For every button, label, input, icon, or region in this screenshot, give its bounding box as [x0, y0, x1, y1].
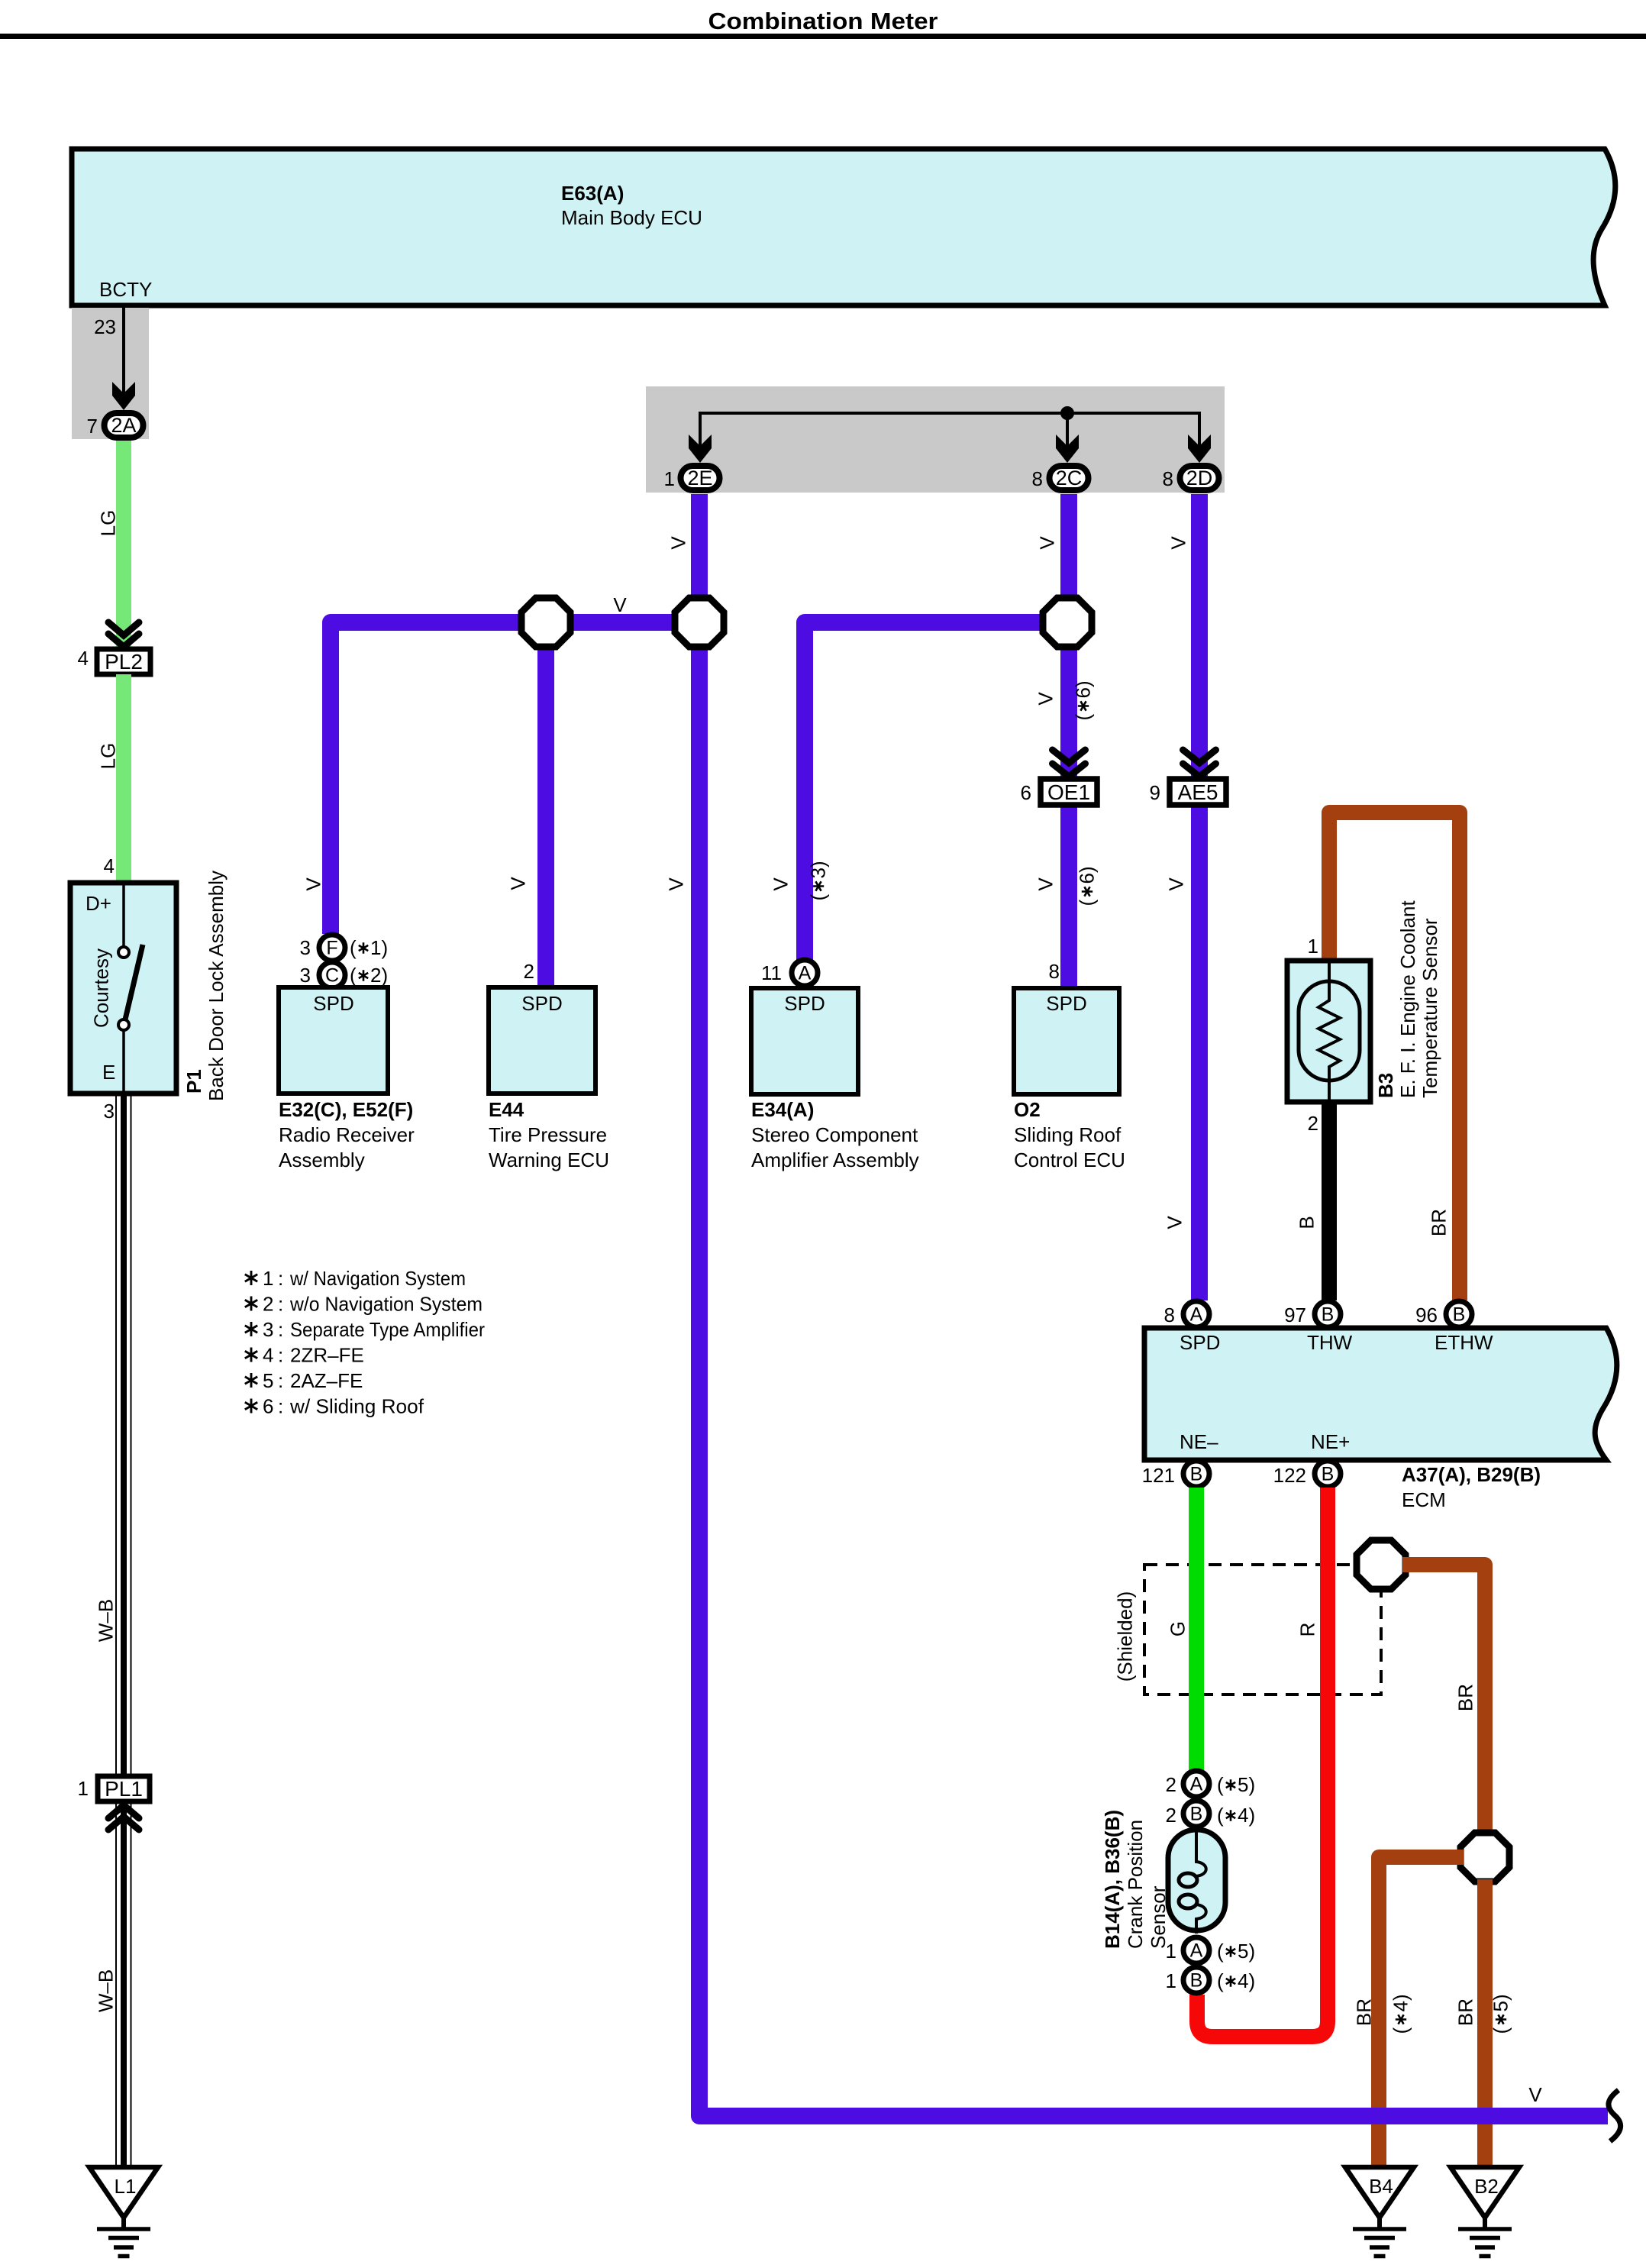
- svg-text:V: V: [507, 877, 530, 890]
- svg-text:PL2: PL2: [105, 650, 143, 674]
- svg-text:96: 96: [1415, 1304, 1438, 1326]
- connector shade 2A: [72, 308, 149, 439]
- svg-text::: :: [278, 1293, 283, 1316]
- ECU E34(A) Stereo Component Amplifier box: [751, 988, 858, 1094]
- connector A of E34: [792, 960, 818, 986]
- svg-text:(: (: [807, 894, 830, 901]
- svg-text:B: B: [1190, 1970, 1203, 1992]
- svg-text:A: A: [1190, 1774, 1203, 1795]
- svg-text:V: V: [1163, 1216, 1186, 1229]
- svg-text:w/ Navigation System: w/ Navigation System: [289, 1267, 466, 1290]
- svg-text:B3: B3: [1374, 1073, 1397, 1098]
- svg-text:BR: BR: [1353, 1998, 1376, 2026]
- label *5: [1489, 1994, 1512, 2034]
- svg-text:V: V: [665, 877, 688, 891]
- ECU E32(C) E52(F) Radio Receiver Assembly box: [279, 987, 388, 1094]
- wire V branch to E34 amplifier: [805, 622, 1067, 960]
- inline connector PL1: [98, 1776, 150, 1801]
- svg-text:(: (: [1389, 2027, 1412, 2034]
- svg-text:6): 6): [1072, 680, 1095, 698]
- inline connector PL2 chevron: [108, 622, 139, 647]
- junction dot: [1060, 406, 1074, 420]
- svg-text:Courtesy: Courtesy: [90, 948, 113, 1028]
- svg-text:AE5: AE5: [1178, 780, 1218, 804]
- svg-text:Radio Receiver: Radio Receiver: [279, 1123, 415, 1146]
- wire bus to 2E 2C 2D: [700, 413, 1199, 458]
- svg-text:6: 6: [1021, 781, 1031, 804]
- svg-text:L1: L1: [115, 2175, 137, 2198]
- wire W-B from P1 to PL1: [115, 1094, 117, 1776]
- svg-text:Amplifier Assembly: Amplifier Assembly: [751, 1149, 919, 1171]
- svg-text:Crank Position: Crank Position: [1124, 1820, 1147, 1949]
- svg-text:B: B: [1190, 1464, 1203, 1485]
- svg-text:2D: 2D: [1186, 467, 1213, 489]
- svg-text:3: 3: [263, 1318, 273, 1341]
- svg-text:w/ Sliding Roof: w/ Sliding Roof: [289, 1395, 424, 1418]
- svg-text:BR: BR: [1454, 1684, 1477, 1711]
- pickup coil of crank sensor: [1196, 1827, 1206, 1876]
- connector 2C: [1050, 466, 1089, 490]
- svg-text:Tire Pressure: Tire Pressure: [489, 1123, 607, 1146]
- svg-text:SPD: SPD: [313, 992, 353, 1015]
- inline connector PL1 chevron: [108, 1805, 139, 1830]
- svg-text:G: G: [1167, 1621, 1189, 1636]
- wire B from B3 pin 2 to ECM THW: [1322, 1102, 1337, 1300]
- arrow into 2A: [112, 382, 135, 410]
- svg-text:Assembly: Assembly: [279, 1149, 365, 1171]
- svg-text:B2: B2: [1474, 2175, 1499, 2198]
- svg-text:Sensor: Sensor: [1147, 1885, 1170, 1949]
- switch contact wire bottom: [122, 1030, 125, 1094]
- svg-text:(: (: [1072, 714, 1095, 721]
- wire V from 2D down to ECM SPD: [1191, 494, 1208, 1300]
- svg-text:1: 1: [263, 1267, 273, 1290]
- svg-text:4: 4: [78, 647, 89, 670]
- svg-text:4): 4): [1238, 1969, 1255, 1992]
- sensor B14(A) B36(B) Crank Position Sensor body: [1168, 1830, 1225, 1930]
- svg-text:V: V: [667, 536, 690, 550]
- svg-text:8: 8: [1163, 467, 1173, 490]
- svg-text:2: 2: [1166, 1773, 1176, 1796]
- inline connector OE1: [1041, 779, 1097, 805]
- svg-text:PL1: PL1: [105, 1777, 143, 1801]
- ECU E63(A) Main Body ECU box: [72, 149, 1615, 305]
- svg-text:3: 3: [300, 964, 311, 987]
- wire R from ECM NE+ to crank sensor: [1197, 1488, 1328, 2037]
- connector 2D: [1180, 466, 1219, 490]
- svg-text:NE+: NE+: [1311, 1430, 1350, 1453]
- connector F of radio: [319, 935, 345, 961]
- svg-text:SPD: SPD: [521, 992, 562, 1015]
- arrow into 2C: [1056, 435, 1079, 463]
- connector B pin 1 of crank sensor: [1183, 1967, 1209, 1993]
- svg-text:Main Body ECU: Main Body ECU: [561, 206, 702, 229]
- svg-text:V: V: [302, 877, 325, 891]
- svg-text:2: 2: [263, 1293, 273, 1316]
- svg-text:P1: P1: [182, 1069, 205, 1094]
- wire V trunk horizontal to right edge: [699, 1947, 1608, 2116]
- junction octagon BR: [1460, 1833, 1509, 1882]
- svg-text:5: 5: [263, 1369, 273, 1392]
- svg-text:V: V: [1034, 692, 1057, 706]
- svg-text:Sliding Roof: Sliding Roof: [1014, 1123, 1122, 1146]
- svg-text:W–B: W–B: [95, 1969, 118, 2012]
- svg-text:V: V: [1167, 536, 1190, 550]
- svg-text:Stereo Component: Stereo Component: [751, 1123, 918, 1146]
- ground L1: [89, 2167, 158, 2218]
- svg-text:2: 2: [1166, 1804, 1176, 1827]
- svg-text:2: 2: [1308, 1112, 1318, 1135]
- svg-text:A: A: [799, 963, 812, 984]
- svg-text:2E: 2E: [687, 467, 712, 489]
- shield box (Shielded): [1144, 1565, 1381, 1695]
- connector A pin 2 of crank sensor: [1183, 1771, 1209, 1797]
- svg-text:R: R: [1296, 1623, 1319, 1637]
- svg-text::: :: [278, 1395, 283, 1418]
- svg-text:A: A: [1190, 1940, 1203, 1962]
- junction octagon on shield: [1357, 1540, 1406, 1589]
- wire V from 2C to junction: [1060, 494, 1077, 622]
- svg-text:(: (: [1489, 2027, 1512, 2034]
- svg-text:23: 23: [94, 315, 116, 338]
- wire V drop to E44: [537, 622, 554, 987]
- svg-text:B14(A), B36(B): B14(A), B36(B): [1101, 1810, 1124, 1949]
- wire LG segment from PL2 to P1: [116, 674, 131, 883]
- svg-text:SPD: SPD: [1046, 992, 1086, 1015]
- svg-text:Control ECU: Control ECU: [1014, 1149, 1125, 1171]
- svg-text:LG: LG: [97, 510, 120, 537]
- svg-text:BR: BR: [1428, 1209, 1451, 1236]
- wire BCTY pin 23 to connector 2A: [122, 308, 125, 397]
- switch P1 Back Door Lock Assembly box: [70, 883, 176, 1094]
- svg-text:6): 6): [1076, 866, 1099, 884]
- svg-text:122: 122: [1273, 1464, 1306, 1487]
- junction octagon on 2E wire: [675, 598, 724, 647]
- junction octagon on 2C wire: [1043, 598, 1092, 647]
- svg-text:V: V: [1165, 877, 1188, 891]
- svg-text:B: B: [1322, 1304, 1335, 1326]
- svg-text:W–B: W–B: [95, 1599, 118, 1642]
- inline connector AE5 chevron: [1183, 750, 1216, 777]
- svg-text:B: B: [1296, 1216, 1318, 1229]
- wire BR to ground B4: [1379, 1857, 1464, 2167]
- wire G from ECM NE- to crank sensor: [1189, 1488, 1204, 1770]
- switch contact wire top: [122, 883, 125, 947]
- svg-text:V: V: [1036, 536, 1059, 550]
- svg-text::: :: [278, 1344, 283, 1367]
- svg-text:OE1: OE1: [1047, 780, 1090, 804]
- arrow into 2E: [689, 435, 712, 463]
- notes legend: [245, 1271, 257, 1285]
- svg-text::: :: [278, 1267, 283, 1290]
- svg-text:BR: BR: [1454, 1998, 1477, 2026]
- svg-text:(: (: [350, 936, 357, 959]
- svg-text:Warning ECU: Warning ECU: [489, 1149, 609, 1171]
- connector B pin 122 NE+: [1315, 1461, 1341, 1487]
- connector B pin 96 ETHW: [1446, 1301, 1472, 1327]
- svg-text:(: (: [1217, 1804, 1224, 1827]
- switch contact top: [118, 947, 129, 958]
- arrow into 2D: [1188, 435, 1211, 463]
- svg-text:(: (: [350, 964, 357, 987]
- wire BR to ground B2: [1477, 1879, 1493, 2167]
- svg-text:4: 4: [263, 1344, 273, 1367]
- svg-text:B4: B4: [1369, 2175, 1393, 2198]
- connector shade 2E 2C 2D: [646, 386, 1225, 493]
- svg-text:1: 1: [1308, 935, 1318, 958]
- svg-text:11: 11: [761, 961, 782, 984]
- svg-text:5): 5): [1238, 1773, 1255, 1796]
- svg-text:2): 2): [370, 964, 388, 987]
- svg-text:E63(A): E63(A): [561, 182, 624, 205]
- svg-text:E34(A): E34(A): [751, 1098, 814, 1121]
- svg-text:(: (: [1217, 1969, 1224, 1992]
- connector A pin 1 of crank sensor: [1183, 1937, 1209, 1963]
- svg-text:E. F. I. Engine Coolant: E. F. I. Engine Coolant: [1396, 900, 1419, 1098]
- title rule: [0, 34, 1646, 39]
- svg-text:V: V: [613, 593, 627, 616]
- wire LG segment from 2A to PL2: [116, 441, 131, 649]
- wire BR from B3 pin 1 to ECM ETHW: [1329, 813, 1460, 1300]
- connector B pin 97 THW: [1315, 1301, 1341, 1327]
- svg-text:B: B: [1322, 1464, 1335, 1485]
- svg-text:E32(C), E52(F): E32(C), E52(F): [279, 1098, 413, 1121]
- svg-text:V: V: [1528, 2083, 1542, 2106]
- svg-text:2C: 2C: [1056, 467, 1083, 489]
- svg-text:Back Door Lock Assembly: Back Door Lock Assembly: [205, 871, 228, 1101]
- svg-text:w/o Navigation System: w/o Navigation System: [289, 1293, 483, 1316]
- svg-text:3): 3): [807, 861, 830, 878]
- inline connector PL2: [97, 649, 150, 674]
- ECU ECM A37(A) B29(B) box: [1144, 1328, 1617, 1460]
- wire BR from shield junction: [1402, 1565, 1485, 1835]
- svg-text:5): 5): [1238, 1940, 1255, 1963]
- svg-text:1: 1: [664, 467, 675, 490]
- svg-text:4): 4): [1238, 1804, 1255, 1827]
- ECU E44 Tire Pressure Warning ECU box: [489, 987, 595, 1094]
- svg-text:121: 121: [1142, 1464, 1175, 1487]
- svg-text:2: 2: [524, 960, 534, 983]
- svg-text:SPD: SPD: [1180, 1331, 1220, 1354]
- label *6: [1076, 866, 1099, 906]
- connector 2E: [681, 466, 720, 490]
- ground B2: [1451, 2167, 1519, 2218]
- svg-text:8: 8: [1032, 467, 1043, 490]
- svg-text:4: 4: [104, 855, 115, 877]
- svg-text:3: 3: [104, 1100, 115, 1123]
- svg-text:97: 97: [1284, 1304, 1306, 1326]
- sensor B3 EFI Engine Coolant Temperature Sensor: [1287, 961, 1370, 1102]
- svg-text:(: (: [1217, 1773, 1224, 1796]
- junction octagon on branch: [521, 598, 570, 647]
- connector 2A: [105, 413, 144, 438]
- svg-text:2A: 2A: [111, 414, 136, 437]
- svg-text:2ZR–FE: 2ZR–FE: [290, 1344, 364, 1367]
- svg-text:8: 8: [1049, 960, 1060, 983]
- label *4: [1389, 1994, 1412, 2034]
- wire V from 2C junction down to O2 SPD: [1060, 622, 1077, 988]
- svg-text:SPD: SPD: [784, 992, 825, 1015]
- svg-text:LG: LG: [97, 743, 120, 770]
- svg-text::: :: [278, 1369, 283, 1392]
- svg-text:E: E: [102, 1061, 115, 1084]
- svg-text::: :: [278, 1318, 283, 1341]
- svg-text:5): 5): [1489, 1994, 1512, 2011]
- svg-text:ECM: ECM: [1402, 1488, 1446, 1511]
- switch contact bottom: [118, 1019, 129, 1030]
- svg-text:1): 1): [370, 936, 388, 959]
- svg-text:Separate Type Amplifier: Separate Type Amplifier: [290, 1318, 485, 1341]
- svg-text:V: V: [770, 877, 792, 891]
- svg-text:B: B: [1453, 1304, 1466, 1326]
- thermistor element of B3: [1318, 961, 1340, 1102]
- svg-text:7: 7: [87, 415, 98, 438]
- switch blade: [125, 945, 143, 1019]
- connector B pin 121 NE-: [1183, 1461, 1209, 1487]
- svg-text:C: C: [325, 965, 339, 987]
- wire V branch to radio and E44: [331, 622, 699, 934]
- svg-text:V: V: [1034, 877, 1057, 891]
- svg-text:F: F: [326, 938, 337, 959]
- svg-text:NE–: NE–: [1180, 1430, 1218, 1453]
- svg-text:Temperature Sensor: Temperature Sensor: [1418, 918, 1441, 1098]
- svg-text:O2: O2: [1014, 1098, 1041, 1121]
- svg-text:4): 4): [1389, 1994, 1412, 2011]
- svg-text:3: 3: [300, 936, 311, 959]
- svg-text:ETHW: ETHW: [1435, 1331, 1493, 1354]
- inline connector OE1 chevron: [1053, 750, 1086, 777]
- svg-text:E44: E44: [489, 1098, 524, 1121]
- svg-text:(: (: [1217, 1940, 1224, 1963]
- svg-text:BCTY: BCTY: [99, 278, 152, 301]
- svg-text:1: 1: [1166, 1969, 1176, 1992]
- inline connector AE5: [1170, 779, 1226, 805]
- connector C of radio: [319, 962, 345, 988]
- ECU O2 Sliding Roof Control ECU box: [1014, 988, 1119, 1094]
- svg-text:(Shielded): (Shielded): [1114, 1591, 1137, 1682]
- ground B4: [1345, 2167, 1414, 2218]
- svg-text:2AZ–FE: 2AZ–FE: [290, 1369, 363, 1392]
- wire V trunk vertical from 2E: [691, 494, 708, 2116]
- svg-text:THW: THW: [1307, 1331, 1353, 1354]
- svg-text:B: B: [1190, 1804, 1203, 1825]
- svg-text:6: 6: [263, 1395, 273, 1418]
- svg-text:A37(A), B29(B): A37(A), B29(B): [1402, 1463, 1541, 1486]
- label *3: [807, 861, 830, 900]
- connector B pin 2 of crank sensor: [1183, 1801, 1209, 1827]
- continuation squiggle: [1609, 2090, 1621, 2141]
- connector A pin 8 SPD: [1183, 1301, 1209, 1327]
- svg-text:9: 9: [1150, 781, 1160, 804]
- svg-text:Combination Meter: Combination Meter: [708, 8, 938, 34]
- svg-text:(: (: [1076, 900, 1099, 906]
- svg-text:8: 8: [1164, 1304, 1175, 1326]
- wire W-B from PL1 to ground L1: [115, 1801, 117, 2167]
- label *6: [1072, 680, 1095, 720]
- svg-text:1: 1: [78, 1777, 89, 1800]
- svg-text:A: A: [1190, 1304, 1203, 1326]
- svg-text:D+: D+: [86, 892, 111, 915]
